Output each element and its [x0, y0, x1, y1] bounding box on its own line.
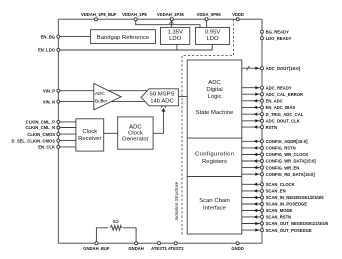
svg-text:Clock: Clock	[82, 129, 97, 135]
svg-text:Generator: Generator	[122, 137, 149, 143]
svg-text:Bandgap Reference: Bandgap Reference	[97, 35, 150, 41]
svg-text:D_TRIG_ADC_CAL: D_TRIG_ADC_CAL	[266, 112, 304, 117]
svg-text:VIN_N: VIN_N	[43, 99, 55, 104]
node EN_CLK	[57, 145, 60, 148]
svg-text:LDO: LDO	[207, 36, 220, 42]
svg-text:EN_LDO: EN_LDO	[38, 48, 56, 53]
svg-text:EN_BG: EN_BG	[41, 34, 55, 39]
wire section divider 2	[187, 176, 242, 178]
svg-text:VDDD: VDDD	[232, 12, 244, 17]
node SCAN_RSTN	[242, 216, 260, 218]
svg-text:D_SEL_CLKIN_CMOS: D_SEL_CLKIN_CMOS	[11, 138, 55, 143]
svg-text:SCAN_OUT_NEGEDGE1/2/3/4/5: SCAN_OUT_NEGEDGE1/2/3/4/5	[266, 221, 329, 226]
node GNDAH	[135, 242, 138, 245]
wire D_SEL_CLKIN_CMOS	[58, 140, 76, 142]
clock input marker on ADC	[161, 104, 166, 108]
node SCAN_MODE	[242, 210, 260, 212]
node LDO_READY	[261, 37, 264, 40]
node GNDAH_BUF	[95, 242, 98, 245]
node EN_ADC_BIAS	[242, 106, 260, 108]
wire EN_LDO stub to 1.35V LDO	[176, 44, 178, 50]
node SCAN_IN_POSEDGE	[242, 203, 260, 205]
wire bottom ground rail	[58, 242, 262, 244]
node VDDD	[236, 18, 239, 21]
node SCAN_CLOCK	[242, 183, 260, 185]
resistor R 0 ohm zigzag	[111, 225, 122, 230]
node CONFIG_WR_CLOCK	[242, 154, 260, 156]
svg-text:0.95V: 0.95V	[205, 29, 220, 35]
node EN_BG	[57, 35, 60, 38]
node CLKIN_CML_N	[57, 126, 60, 129]
svg-text:ATEST1: ATEST1	[151, 246, 167, 251]
pin circles top	[57, 18, 240, 245]
wire EN_LDO to LDOs	[58, 44, 212, 50]
svg-text:CONFIG_WR_DATA[15:0]: CONFIG_WR_DATA[15:0]	[266, 159, 317, 164]
svg-text:State Machine: State Machine	[196, 110, 234, 116]
wire CLKIN_CML_P	[58, 121, 76, 123]
wire EN_BG to bandgap	[58, 36, 90, 38]
block 0.95V LDO	[196, 27, 230, 44]
svg-text:VIN_P: VIN_P	[43, 88, 55, 93]
block ADC clock generator	[118, 117, 153, 149]
svg-text:ADC_READY: ADC_READY	[266, 85, 292, 90]
svg-text:CONFIG_ADDR[15:0]: CONFIG_ADDR[15:0]	[266, 139, 308, 144]
svg-text:Clock: Clock	[128, 131, 143, 137]
node SCAN_IN_NEGEDGE1/2/3/4/5	[242, 197, 260, 199]
svg-text:ADC: ADC	[95, 91, 105, 96]
svg-text:BG_READY: BG_READY	[266, 29, 289, 34]
wire left rail	[57, 19, 59, 243]
svg-text:RSTN: RSTN	[266, 125, 277, 130]
node D_SEL_CLKIN_CMOS	[57, 139, 60, 142]
svg-text:LDO_READY: LDO_READY	[266, 36, 292, 41]
node EN_LDO	[57, 49, 60, 52]
arrow open head up into VDDAH_1P35	[169, 21, 173, 24]
node VDDAH_1P8_BUF	[95, 18, 98, 21]
wire VIN_P to ADC buffer	[58, 90, 94, 92]
node ADC_CAL_ERROR	[242, 93, 260, 95]
svg-text:SCAN_EN: SCAN_EN	[266, 189, 286, 194]
node VDDA_0P95	[205, 18, 208, 21]
wire section divider 1	[187, 137, 242, 139]
wire VIN_N to ADC buffer	[58, 101, 94, 103]
svg-text:EN_ADC: EN_ADC	[266, 99, 283, 104]
svg-text:Logic: Logic	[207, 94, 221, 100]
block digital logic box	[187, 60, 242, 234]
svg-text:CLKIN_CML_N: CLKIN_CML_N	[25, 125, 55, 130]
svg-text:SCAN_RSTN: SCAN_RSTN	[266, 215, 292, 220]
svg-text:SCAN_CLOCK: SCAN_CLOCK	[266, 182, 295, 187]
wire CLKIN_CMOS	[58, 133, 76, 135]
svg-text:Receiver: Receiver	[78, 136, 101, 142]
node ADC_READY	[242, 87, 260, 89]
svg-text:VDDAH_1P35: VDDAH_1P35	[157, 12, 185, 17]
svg-text:Configuration: Configuration	[195, 151, 234, 157]
wire buffer to ADC positive	[105, 90, 150, 92]
svg-text:CONFIG_WR_CLOCK: CONFIG_WR_CLOCK	[266, 152, 309, 157]
wire CLKIN_CML_N	[58, 127, 76, 129]
svg-text:Scan Chain: Scan Chain	[199, 198, 229, 204]
svg-text:Registers: Registers	[202, 159, 227, 165]
svg-text:Buffer: Buffer	[95, 99, 108, 104]
svg-text:ATEST2: ATEST2	[168, 246, 184, 251]
node SCAN_EN	[242, 190, 260, 192]
node SCAN_OUT_NEGEDGE1/2/3/4/5	[242, 223, 260, 225]
node SCAN_OUT_POSEDGE	[242, 229, 260, 231]
node CONFIG_WR_EN	[242, 167, 260, 169]
wire right rail	[261, 19, 263, 243]
block bandgap reference	[91, 30, 156, 44]
node VIN_P	[57, 89, 60, 92]
svg-text:14b ADC: 14b ADC	[150, 99, 174, 105]
wire GNDAH resistor right stub	[123, 228, 136, 243]
node RSTN	[242, 126, 260, 128]
wire 0.95V LDO output to VDDA_0P95	[206, 19, 208, 27]
node CONFIG_RD_DATA[15:0]	[242, 173, 260, 175]
svg-text:VDDAH_1P8_BUF: VDDAH_1P8_BUF	[81, 12, 117, 17]
svg-text:CONFIG_RD_DATA[15:0]: CONFIG_RD_DATA[15:0]	[266, 172, 316, 177]
wire clock generator to ADC	[153, 111, 163, 134]
svg-text:LDO: LDO	[169, 36, 182, 42]
svg-text:CLKIN_CMOS: CLKIN_CMOS	[27, 132, 55, 137]
svg-text:EN_ADC_BIAS: EN_ADC_BIAS	[266, 105, 296, 110]
node VIN_N	[57, 100, 60, 103]
svg-text:ADC: ADC	[129, 124, 142, 130]
node GNDD	[236, 242, 239, 245]
node CLKIN_CML_P	[57, 120, 60, 123]
svg-text:SCAN_IN_NEGEDGE1/2/3/4/5: SCAN_IN_NEGEDGE1/2/3/4/5	[266, 195, 325, 200]
node CONFIG_ADDR[15:0]	[242, 140, 260, 142]
node EN_ADC	[242, 100, 260, 102]
svg-text:GNDD: GNDD	[231, 246, 243, 251]
node CLKIN_CMOS	[57, 133, 60, 136]
wire buffer to ADC negative	[105, 101, 150, 103]
wire clock receiver to clock generator	[104, 132, 118, 134]
svg-text:ADC_CAL_ERROR: ADC_CAL_ERROR	[266, 92, 303, 97]
block 1.35V LDO	[161, 27, 190, 44]
svg-text:VDDA_0P95: VDDA_0P95	[197, 12, 222, 17]
node ATEST2	[174, 242, 177, 245]
svg-text:Interface: Interface	[203, 205, 227, 211]
svg-text:ADC_DOUT[15:0]: ADC_DOUT[15:0]	[266, 66, 301, 71]
arrow up into ADC from clock generator	[162, 108, 166, 112]
wire 1.35V LDO output to VDDAH_1P35	[170, 19, 172, 27]
svg-text:SCAN_MODE: SCAN_MODE	[266, 208, 293, 213]
svg-text:SCAN_OUT_POSEDGE: SCAN_OUT_POSEDGE	[266, 228, 312, 233]
svg-text:ADC_DOUT_CLK: ADC_DOUT_CLK	[266, 119, 300, 124]
node ADC_DOUT_CLK	[242, 120, 260, 122]
wire top power rail	[58, 18, 262, 20]
svg-text:GNDAH_BUF: GNDAH_BUF	[83, 246, 110, 251]
svg-text:SCAN_IN_POSEDGE: SCAN_IN_POSEDGE	[266, 202, 308, 207]
block 50 MSPS 14b ADC pentagon	[141, 89, 178, 106]
svg-text:Isolation Structure: Isolation Structure	[174, 182, 180, 221]
block clock receiver	[76, 119, 104, 151]
node VDDAH_1P35	[170, 18, 173, 21]
node VDDAH_1P8	[134, 18, 137, 21]
svg-text:CLKIN_CML_P: CLKIN_CML_P	[26, 120, 56, 125]
svg-text:CONFIG_RSTN: CONFIG_RSTN	[266, 146, 296, 151]
svg-text:50 MSPS: 50 MSPS	[150, 92, 175, 98]
wire VDDAH_1P8 feed to LDO inputs	[136, 19, 200, 27]
svg-text:0Ω: 0Ω	[113, 219, 120, 224]
svg-text:CONFIG_WR_EN: CONFIG_WR_EN	[266, 165, 300, 170]
svg-text:1.35V: 1.35V	[167, 29, 182, 35]
node D_TRIG_ADC_CAL	[242, 113, 260, 115]
node ATEST1	[158, 242, 161, 245]
node BG_READY	[261, 30, 264, 33]
wire ADC output to digital logic	[178, 96, 187, 98]
node CONFIG_WR_DATA[15:0]	[242, 160, 260, 162]
svg-text:Digital: Digital	[206, 87, 222, 93]
node ADC_DOUT[15:0]	[242, 67, 260, 69]
svg-text:EN_CLK: EN_CLK	[38, 145, 55, 150]
svg-text:VDDAH_1P8: VDDAH_1P8	[122, 12, 147, 17]
isolation structure dashed boundary	[182, 19, 234, 236]
wire EN_CLK	[58, 146, 76, 148]
right side pin wires	[242, 29, 329, 232]
svg-text:ADC: ADC	[208, 80, 221, 86]
svg-text:GNDAH: GNDAH	[128, 246, 143, 251]
op-amp ADC buffer triangle	[94, 84, 121, 110]
wire GNDAH_BUF resistor left stub	[96, 228, 108, 243]
arrowheads group	[162, 108, 166, 112]
node CONFIG_RSTN	[242, 147, 260, 149]
